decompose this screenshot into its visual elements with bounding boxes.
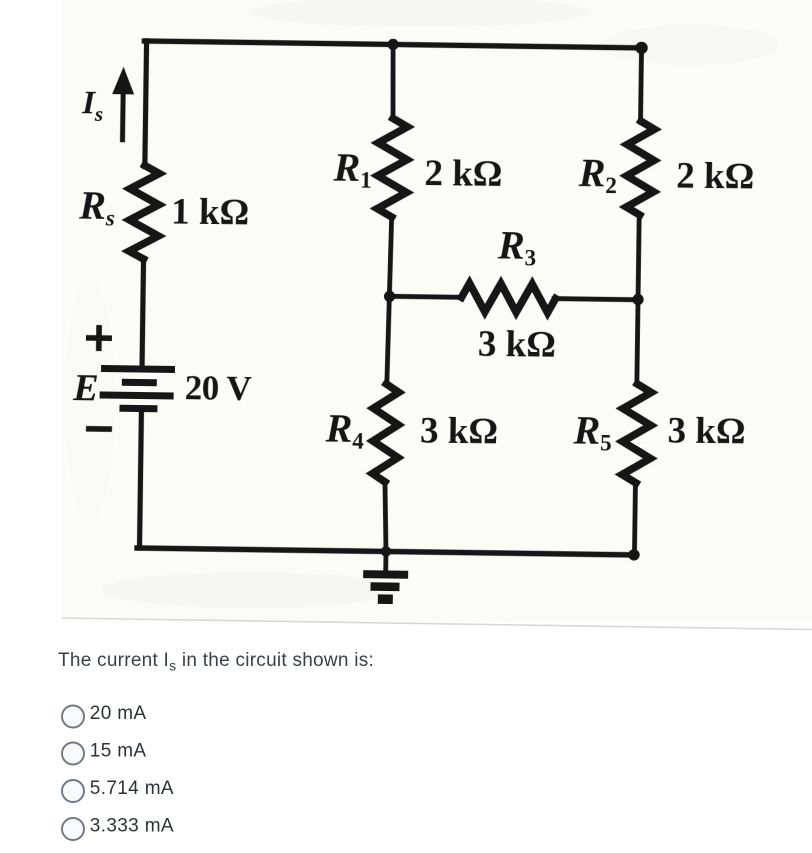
node mid-left bbox=[384, 291, 395, 302]
svg-text:20 V: 20 V bbox=[184, 368, 251, 408]
node bottom-middle bbox=[381, 546, 392, 557]
svg-text:20 mA: 20 mA bbox=[90, 703, 147, 724]
svg-text:E: E bbox=[72, 367, 99, 409]
wire middle branch mid bbox=[387, 217, 392, 385]
node top-middle bbox=[387, 39, 398, 50]
wire R3 row left bbox=[390, 296, 462, 297]
svg-text:2 kΩ: 2 kΩ bbox=[424, 153, 503, 195]
svg-text:1 kΩ: 1 kΩ bbox=[171, 192, 250, 234]
radio option 5.714 mA bbox=[62, 778, 174, 802]
svg-text:15 mA: 15 mA bbox=[90, 740, 147, 761]
wire middle branch upper bbox=[392, 44, 394, 119]
resistor Rs bbox=[129, 165, 159, 259]
svg-text:3 kΩ: 3 kΩ bbox=[420, 411, 499, 453]
wire left branch upper bbox=[145, 41, 147, 167]
wire top bus bbox=[144, 41, 644, 48]
svg-text:3.333 mA: 3.333 mA bbox=[90, 815, 174, 836]
ground bbox=[363, 551, 409, 604]
resistor R2 bbox=[626, 121, 654, 215]
radio option 3.333 mA bbox=[62, 815, 174, 840]
node mid-right bbox=[632, 294, 643, 305]
wire right branch upper bbox=[641, 48, 642, 122]
radio option 15 mA bbox=[62, 740, 146, 764]
svg-text:3 kΩ: 3 kΩ bbox=[478, 324, 557, 366]
current arrow Is bbox=[112, 67, 135, 140]
resistor R4 bbox=[372, 384, 399, 482]
battery minus bbox=[86, 426, 112, 432]
wire bottom bus bbox=[137, 548, 634, 555]
radio option 20 mA bbox=[62, 703, 146, 728]
wire right branch mid bbox=[637, 215, 639, 384]
svg-text:5.714 mA: 5.714 mA bbox=[90, 778, 174, 799]
resistor R3 bbox=[461, 283, 555, 313]
wire middle branch lower bbox=[384, 482, 387, 552]
resistor R5 bbox=[622, 384, 651, 483]
resistor R1 bbox=[377, 118, 407, 217]
node bottom-right bbox=[628, 549, 640, 561]
wire R3 row right bbox=[554, 299, 638, 300]
battery plus bbox=[86, 325, 112, 351]
wire left branch lower bbox=[140, 412, 142, 548]
battery E plates bbox=[99, 365, 175, 413]
svg-text:2 kΩ: 2 kΩ bbox=[676, 155, 755, 197]
node top-right bbox=[635, 42, 648, 55]
svg-text:3 kΩ: 3 kΩ bbox=[667, 410, 746, 452]
svg-text:The current Is in the circuit: The current Is in the circuit shown is: bbox=[58, 650, 374, 674]
wire left branch between Rs and battery bbox=[142, 259, 143, 365]
wire right branch lower bbox=[634, 483, 635, 555]
